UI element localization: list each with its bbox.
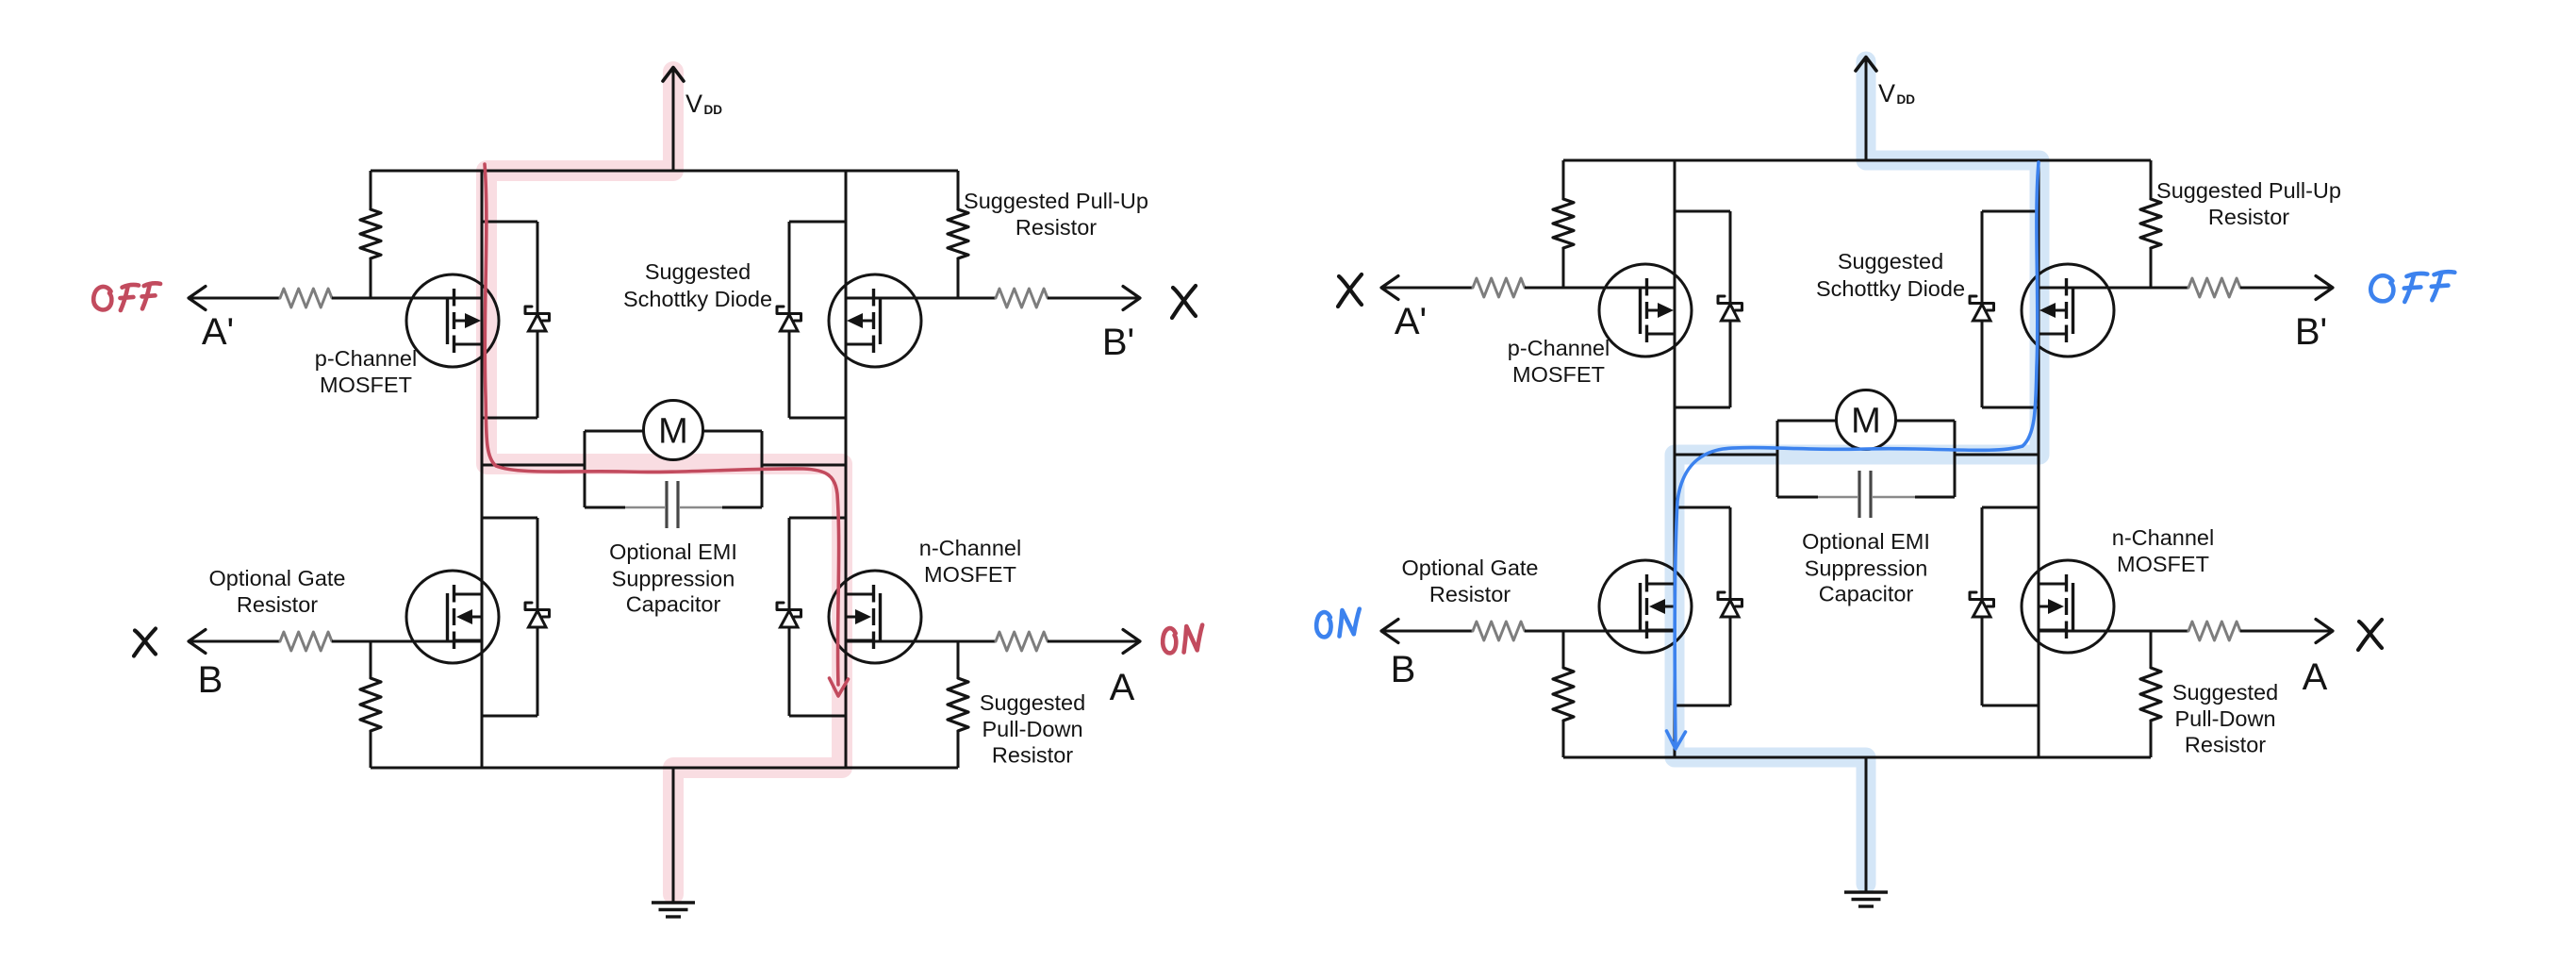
svg-text:Suggested: Suggested	[980, 690, 1085, 715]
svg-text:n-Channel: n-Channel	[919, 536, 1021, 560]
svg-text:Suppression: Suppression	[612, 567, 735, 591]
svg-text:B: B	[198, 659, 223, 701]
svg-text:Optional EMI: Optional EMI	[1802, 529, 1930, 554]
svg-text:Resistor: Resistor	[1429, 582, 1511, 606]
svg-text:A': A'	[202, 311, 234, 353]
svg-text:B': B'	[1102, 322, 1134, 363]
svg-text:DD: DD	[1897, 92, 1916, 107]
svg-text:Capacitor: Capacitor	[1819, 582, 1914, 606]
svg-text:Capacitor: Capacitor	[626, 592, 721, 617]
svg-text:Suggested: Suggested	[1838, 249, 1943, 274]
svg-text:Suggested Pull-Up: Suggested Pull-Up	[964, 189, 1148, 213]
svg-text:Schottky Diode: Schottky Diode	[623, 287, 772, 311]
svg-text:V: V	[1878, 79, 1895, 108]
svg-text:MOSFET: MOSFET	[924, 562, 1016, 587]
svg-text:Pull-Down: Pull-Down	[2174, 706, 2275, 731]
svg-text:M: M	[658, 412, 688, 452]
svg-text:Resistor: Resistor	[1016, 215, 1097, 240]
svg-text:p-Channel: p-Channel	[1508, 336, 1610, 360]
svg-text:Pull-Down: Pull-Down	[982, 717, 1082, 741]
svg-text:Suggested: Suggested	[645, 259, 751, 284]
svg-text:M: M	[1851, 402, 1881, 441]
svg-text:Resistor: Resistor	[237, 592, 318, 617]
svg-text:MOSFET: MOSFET	[320, 373, 412, 397]
svg-text:Optional Gate: Optional Gate	[1401, 556, 1538, 580]
svg-text:Resistor: Resistor	[992, 743, 1073, 768]
svg-text:MOSFET: MOSFET	[2117, 552, 2209, 576]
svg-text:A: A	[2303, 656, 2328, 698]
svg-text:V: V	[685, 90, 702, 118]
svg-text:A: A	[1110, 667, 1135, 708]
svg-text:n-Channel: n-Channel	[2112, 525, 2214, 550]
svg-text:MOSFET: MOSFET	[1512, 362, 1605, 387]
svg-text:p-Channel: p-Channel	[315, 346, 417, 371]
svg-text:Optional EMI: Optional EMI	[609, 539, 737, 564]
svg-text:Schottky Diode: Schottky Diode	[1816, 276, 1965, 301]
svg-text:Suppression: Suppression	[1805, 556, 1928, 581]
svg-text:Optional Gate: Optional Gate	[208, 566, 345, 590]
svg-text:B': B'	[2295, 311, 2327, 353]
svg-text:Suggested: Suggested	[2172, 680, 2278, 705]
svg-text:Resistor: Resistor	[2208, 205, 2289, 229]
svg-text:A': A'	[1395, 301, 1427, 342]
svg-text:B: B	[1391, 649, 1416, 690]
svg-text:Resistor: Resistor	[2185, 733, 2266, 757]
svg-text:DD: DD	[704, 103, 723, 117]
svg-text:Suggested Pull-Up: Suggested Pull-Up	[2156, 178, 2341, 203]
